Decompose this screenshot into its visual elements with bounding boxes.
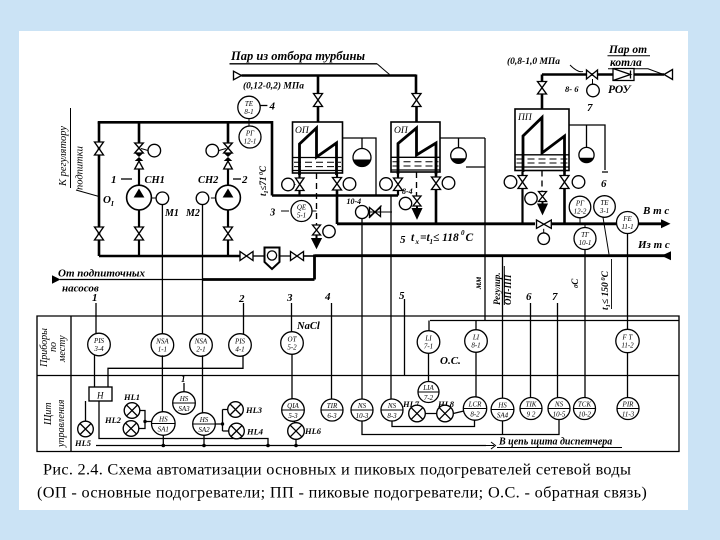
impulse line to О.С. [484,138,486,321]
svg-text:0: 0 [461,229,465,237]
svg-text:LСR: LСR [468,401,483,409]
svg-text:(0,8-1,0 МПа: (0,8-1,0 МПа [507,56,560,67]
svg-text:F Т: F Т [622,334,634,342]
pump СН1 [127,185,152,210]
svg-text:6-3: 6-3 [327,412,337,420]
svg-text:8-1: 8-1 [471,342,480,350]
svg-text:РГ: РГ [245,130,255,138]
svg-text:5: 5 [399,290,405,302]
actuator circle (right) [442,177,455,190]
leader diagonal to steam pipe [377,64,390,75]
instrument ТСК 10-2 [574,398,596,420]
wire: makeup line thin part [60,279,203,281]
svg-text:FЕ: FЕ [622,215,632,223]
svg-text:7: 7 [552,291,558,303]
sensor РГ 12-2 [569,196,591,218]
leader arc [570,65,583,72]
svg-text:11-2: 11-2 [621,342,634,350]
divider between sections [37,375,679,377]
wire: Н to HL5 [85,401,87,421]
svg-text:НS: НS [497,402,507,410]
dispatcher arrow [486,442,496,449]
svg-text:ПП: ПП [517,113,533,123]
valve ПП right drain [560,176,569,189]
instrument FT 11-2 [616,329,639,352]
svg-text:HL3: HL3 [245,405,263,415]
wire: ОТ 5-2 to QIA 5-3 [291,354,293,398]
svg-text:10-1: 10-1 [579,239,592,247]
dashed sample line ОП1 [316,173,318,225]
svg-text:ТIК: ТIК [526,401,537,409]
stem to actuator 7 [592,79,594,85]
wire: t1<150 line (FЕ 11-1 down) [627,234,629,330]
level gauge ОП2 [440,138,485,321]
wire: СН2 to suction [227,210,229,227]
svg-text:НS: НS [179,395,189,403]
instrument LCR 8-2 [463,397,486,420]
svg-text:NS: NS [387,402,397,410]
svg-text:К регулятору: К регулятору [58,126,69,187]
wire: ОП1 left drain pipe [298,173,300,178]
valve ОП1 right drain [333,178,342,191]
sensor ТГ 10-1 [574,228,596,250]
key switch HS SA2 [193,413,216,436]
svg-text:3: 3 [269,208,275,219]
wire: channel 2 [243,303,245,336]
actuator circle СН1 [141,149,148,151]
wire: channel 4 [331,303,333,399]
instrument HS SA4 [491,398,514,421]
svg-text:SА3: SА3 [178,405,190,413]
wire: channel 6 [530,303,532,397]
svg-text:Из т с: Из т с [637,239,670,251]
wire: О.С. top line [430,320,679,322]
svg-text:HL2: HL2 [104,415,122,425]
instrument LI 8-1 [465,330,488,353]
svg-text:подпитки: подпитки [75,146,86,190]
makeup arrow [52,275,61,283]
svg-text:М1: М1 [164,208,179,219]
lamp HL4 [229,423,245,439]
actuator circle [399,197,411,209]
wire: recirc line left [98,122,101,256]
svg-text:QE: QE [297,204,307,212]
svg-text:1: 1 [181,374,186,384]
svg-text:М2: М2 [185,208,200,219]
pump СН2 [216,185,241,210]
actuator circle [525,192,537,204]
sensor РГ 12-1 [239,126,261,148]
svg-text:SА2: SА2 [198,426,210,434]
wires: HS SA2 to HL3/HL4 [215,410,228,432]
instrument LIA 7-2 [418,382,439,403]
wire: valve to ПП top [541,94,544,109]
svg-text:NaCl: NaCl [296,321,320,332]
wire: М1 to HS SA1 [161,355,163,411]
valve on ОП2 steam inlet [412,94,421,107]
svg-text:LI: LI [472,334,480,342]
wire: corner down to makeup line [313,255,316,280]
instrument NS 10-5 [548,398,570,420]
instrument NSA 1-1 [151,334,174,357]
svg-text:Н: Н [96,391,104,401]
wire: discharge header [98,122,272,195]
valve СН1 top [135,143,144,153]
heater ОП1 [293,122,343,175]
label column divider [70,316,72,452]
svg-text:В цепь щита диспетчера: В цепь щита диспетчера [498,437,612,448]
actuator circle of В т с valve [538,233,550,245]
leader ТЕ 3-1 to Из т с [603,217,609,254]
wire: turbine steam pipe [242,74,417,77]
svg-text:t1≤ 150 0С: t1≤ 150 0С [600,270,612,310]
svg-text:котла: котла [610,57,642,69]
instrument PIS 4-1 [229,334,252,357]
svg-text:1: 1 [92,292,98,304]
svg-text:6: 6 [601,178,607,190]
svg-text:SА1: SА1 [158,426,169,434]
svg-text:HL6: HL6 [304,426,322,436]
svg-text:5-2: 5-2 [287,344,297,352]
wire: SA2 drop [203,435,205,445]
underline Пар от [608,55,651,57]
wire: channel 3 [291,303,293,332]
wire: channel 1 [95,303,97,335]
wire: ОП1 right drain pipe [336,173,338,178]
slashed valve [369,206,382,219]
svg-text:х: х [415,238,420,246]
svg-text:СН1: СН1 [145,175,165,186]
svg-text:От подпиточных: От подпиточных [58,268,146,280]
lamp HL6 [294,421,296,422]
sample valve ОП1 [313,225,321,235]
svg-text:11-3: 11-3 [622,411,635,419]
relay box Н [89,387,112,401]
instrument NSA 2-1 [190,334,213,357]
svg-text:ТIR: ТIR [327,402,338,410]
zigzag tube ОП1 [300,128,337,175]
wire: channel 7 [557,303,559,397]
sensor FЕ 11-1 [617,212,639,234]
svg-text:1-1: 1-1 [158,346,167,354]
actuator circle (right) [343,178,356,191]
svg-text:НS: НS [158,416,168,424]
wire: sensor line 5 (t х) [390,196,392,400]
wire: steam drop to ОП2 [415,75,418,94]
actuator circle (left) [380,178,393,191]
wire: HL7-HL8 link [425,411,464,414]
svg-text:NS: NS [357,402,367,410]
valve СН2 suction [224,227,233,240]
svg-text:12-2: 12-2 [574,208,587,216]
valve on ОП1 steam inlet [314,94,323,107]
svg-text:QIА: QIА [287,402,299,410]
svg-text:ОТ: ОТ [288,336,298,344]
svg-text:ТЕ: ТЕ [245,100,254,108]
svg-text:РIS: РIS [234,338,246,346]
valve ПП left drain [518,176,527,189]
svg-text:2-1: 2-1 [196,346,205,354]
level gauge ОП1 [343,138,377,196]
actuator circle (left) [504,176,517,189]
svg-text:HL4: HL4 [246,427,263,437]
valve on suction header (left) [240,252,253,261]
wire: channel 5 [404,299,406,376]
control valve body СН2 (filled) [224,153,233,161]
leader to recirc line [76,190,99,197]
svg-text:NSА: NSА [155,338,169,346]
svg-text:Пар из отбора турбины: Пар из отбора турбины [230,49,365,63]
svg-text:1: 1 [111,174,117,186]
svg-text:3: 3 [286,292,293,304]
wire: М2 signal line [202,205,204,335]
valve 8-6 on boiler pipe [587,70,598,79]
svg-text:5-1: 5-1 [297,212,306,220]
wire: LI 8-1 stub [475,321,477,398]
wire: М2 to HS SA2 [202,355,204,412]
В т с arrow [661,219,671,228]
wire: °С line (ТГ 10-1 to ТСК 10-2) [584,250,586,398]
valve ОП2 right drain [432,177,441,190]
wire: Регулир ОП-ПП line [502,257,504,398]
svg-text:7-1: 7-1 [424,343,433,351]
valve СН2 top [224,143,233,153]
svg-text:NS: NS [554,401,564,409]
svg-text:8-2: 8-2 [470,411,480,419]
svg-text:мм: мм [473,277,483,290]
lamp HL3 [228,402,244,418]
svg-text:8-1: 8-1 [244,108,253,116]
svg-text:10-5: 10-5 [553,411,566,419]
key switch HS SA3 [183,383,185,392]
svg-text:I: I [110,200,114,208]
wire: СН1 branch [138,122,141,143]
РОУ reducing unit [613,69,634,81]
wire: boiler steam pipe [542,73,664,76]
svg-text:Регулир.: Регулир. [492,272,502,305]
water level ПП [515,155,569,167]
svg-text:месту: месту [57,335,68,363]
valve on recirc line (top) [95,142,104,155]
wire: suction to corner [304,255,315,257]
heater ПП [515,109,569,172]
wire: NS10-3 link line [362,420,559,435]
svg-text:управления: управления [56,399,67,448]
check cone СН1 [135,161,144,169]
lamp HL5 [78,421,94,437]
instrument ОТ 5-2 [281,332,304,355]
motor М2 [211,197,216,199]
water level ОП1 [293,158,343,171]
sensor ТЕ 3-1 [594,196,616,218]
svg-text:2: 2 [238,293,245,305]
wire: Из т с header [315,254,672,257]
wire: СН1 to suction [138,210,140,227]
motor М1 [151,197,156,199]
heater ОП2 [391,122,440,174]
svg-text:СН2: СН2 [198,175,219,186]
svg-text:5-3: 5-3 [288,412,298,420]
svg-text:10-4: 10-4 [347,197,362,206]
actuator circle СН2 [219,149,226,151]
wire: SA4 drop [502,421,504,435]
svg-text:РIR: РIR [622,401,635,409]
wires: lamps to HS SA1 [139,411,152,429]
stub between ТЕ 8-1 and РГ 12-1 [248,119,250,127]
key switch HS SA1 [152,412,176,436]
wire: boiler steam corner down to ПП [541,75,544,82]
bus junction dots [162,444,166,448]
svg-text:LI: LI [424,335,432,343]
sample valve ОП2 [413,196,421,206]
wire: М1 signal line [161,205,163,335]
svg-text:9 2: 9 2 [527,411,536,419]
svg-text:10-2: 10-2 [578,411,591,419]
svg-text:LIА: LIА [422,384,434,392]
svg-text:7-2: 7-2 [424,394,434,402]
svg-text:РГ: РГ [575,200,585,208]
svg-text:РОУ: РОУ [608,84,633,96]
valve ОП1 left drain [296,178,305,191]
valve СН1 suction [135,227,144,240]
underline котла + leader to arrow [608,69,664,75]
instrument PIS 3-4 [88,333,111,356]
svg-text:О.С.: О.С. [440,355,461,367]
svg-text:О: О [103,194,111,206]
valve on ПП steam inlet [538,82,547,95]
zigzag tube ОП2 [398,128,436,174]
actuator circle [323,225,335,237]
dashed sample line ПП [541,171,543,192]
drain arrow down [539,202,547,214]
svg-text:8-4: 8-4 [402,187,413,196]
wire: PIS 3-4 to Н [94,355,96,388]
wire: bypass sensor line [361,219,363,400]
drain arrow down [313,235,321,247]
svg-text:ТЕ: ТЕ [600,199,609,207]
svg-text:5: 5 [400,234,406,246]
svg-text:Рис. 2.4. Схема автоматизации: Рис. 2.4. Схема автоматизации основных и… [43,460,631,479]
strainer (грязевик) [253,255,264,257]
dashed sample line ОП2 [416,172,418,196]
wire: NS8-3 / LCR link [392,420,475,426]
wire: thick transfer line under heaters [272,194,398,197]
svg-text:11-1: 11-1 [621,223,633,231]
wire: suction header [99,255,240,257]
svg-text:НS: НS [199,416,209,424]
svg-text:≤ 118: ≤ 118 [433,232,459,244]
svg-text:ТГ: ТГ [581,231,590,239]
wire: steam drop to ОП1 [317,76,320,94]
svg-text:(ОП - основные подогреватели;: (ОП - основные подогреватели; ПП - пиков… [37,483,647,502]
valve on suction header (right) [280,252,304,261]
actuator circle (left) [282,178,295,191]
svg-text:4: 4 [269,101,276,113]
svg-text:В т с: В т с [642,205,669,217]
analyser QE 5-1 [291,201,312,222]
water level ОП2 [391,157,440,170]
panel section frame [37,316,679,452]
svg-text:С: С [466,232,474,244]
instrument PIR 11-3 [617,398,639,420]
svg-text:7: 7 [587,102,593,114]
svg-text:2: 2 [241,174,248,186]
svg-text:ТСК: ТСК [578,401,592,409]
svg-text:HL5: HL5 [74,438,92,448]
instrument NS 10-3 [351,399,373,421]
sample valve ПП [539,192,547,202]
wire: HL6 drop [295,439,297,445]
instrument TIK 9-2 [520,398,542,420]
zigzag tube ПП [523,118,565,173]
instrument TIR 6-3 [321,399,343,421]
actuator circle of valve 8-6 [587,84,600,97]
control valve on В т с line [537,220,552,228]
svg-text:SА4: SА4 [497,412,509,420]
wire: РГ 12-2 stub [579,218,581,224]
svg-text:HL1: HL1 [123,392,140,402]
wire: SA1 drop [162,435,164,445]
svg-text:4-1: 4-1 [235,346,244,354]
svg-text:6: 6 [526,291,532,303]
svg-text:8-3: 8-3 [387,412,397,420]
wire: LI 7-1 stub [428,321,431,382]
valve on recirc line (bottom) [95,227,104,240]
svg-text:8- 6: 8- 6 [565,84,579,94]
level gauge ПП [569,125,608,190]
Из т с arrow (pointing left) [662,251,672,260]
boiler source arrow (open, pointing left) [664,70,673,80]
svg-text:Щит: Щит [43,402,54,426]
instrument NS 8-3 [381,399,403,421]
svg-text:10-3: 10-3 [356,412,369,420]
wire: FT to PIR [627,353,629,397]
svg-text:(0,12-0,2) МПа: (0,12-0,2) МПа [243,81,304,92]
check cone СН2 [224,161,233,169]
svg-text:3-1: 3-1 [599,207,609,215]
svg-text:РIS: РIS [93,337,105,345]
sensor ТЕ 8-1 [238,96,260,118]
drain arrow down [413,206,421,218]
instrument LI 7-1 [417,331,440,354]
svg-text:NSА: NSА [194,338,208,346]
valve ОП2 left drain [394,178,403,191]
actuator circle (right) [572,176,585,189]
source arrow (open, pointing right) [234,71,242,80]
control valve body СН1 (filled) [135,153,144,161]
wire: PIS 4-1 jog to Н [108,356,243,388]
wire: В т с header [337,222,535,225]
wire: ТГ 10-1 stub [584,225,586,228]
instrument QIA 5-3 [282,399,305,422]
svg-text:3-4: 3-4 [93,345,104,353]
wire: Н output to bus [99,401,268,446]
underline of turbine label [230,63,378,65]
svg-text:4: 4 [324,291,331,303]
wire: valve to ОП1 top [317,107,320,123]
svg-text:Пар от: Пар от [608,44,647,56]
svg-text:12-1: 12-1 [244,138,257,146]
wire: valve to ОП2 top [415,107,418,123]
wire: СН2 branch [227,122,230,143]
wire: bus [96,445,486,447]
wire: makeup line thick part [203,278,315,281]
